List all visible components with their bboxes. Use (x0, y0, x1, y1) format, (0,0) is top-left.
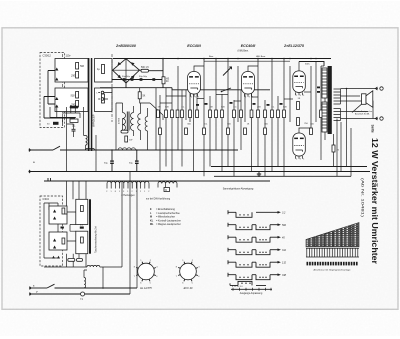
wire vibrator inner link (48, 71, 55, 105)
bridge diode tick SW (117, 75, 120, 79)
svg-text:12 W Verstärker mit Umrichter: 12 W Verstärker mit Umrichter (370, 138, 379, 264)
resistor vertical x258 (257, 110, 260, 118)
svg-text:= Magnet-Lautsprecher: = Magnet-Lautsprecher (156, 223, 181, 226)
svg-text:KL: KL (150, 219, 154, 222)
resistor EL12 bias upper (297, 102, 300, 110)
wire vertical x321 (320, 66, 322, 160)
tube EL12 lower U4 pins (296, 156, 303, 159)
contact diode arrow 2 (55, 78, 58, 81)
node speaker tap (346, 88, 348, 90)
bridge diode tick NW (118, 62, 122, 65)
tube EL12 upper U3 cathode (296, 86, 303, 88)
node junction rail x178 (177, 58, 179, 60)
svg-text:2: 2 (296, 158, 297, 160)
umrichter wedge inner posts (315, 226, 351, 248)
switch row 1 bracket A (236, 212, 252, 217)
resistor vertical x172 (171, 110, 174, 118)
wire secondary tap3 (341, 101, 374, 119)
socket EL12 pins (136, 262, 156, 282)
resistor vertical x251.5 (250, 110, 253, 118)
wire vertical x311 (310, 66, 312, 131)
wire speaker diagonal lead (352, 104, 362, 112)
resistor vertical x197 (196, 110, 199, 118)
svg-text:1: 1 (136, 191, 137, 193)
wire bottom bus (44, 266, 87, 268)
socket diagram EL12 circle (138, 263, 155, 280)
svg-text:4 Heizungen: 4 Heizungen (121, 194, 135, 197)
switch row 1 start terminal (228, 210, 236, 214)
wire vertical x337 (336, 119, 338, 177)
tube ECC40/II U2 cathode (244, 88, 251, 90)
wire mains line a bottom (31, 287, 47, 289)
svg-text:2: 2 (148, 191, 149, 193)
svg-text:M: M (150, 216, 152, 219)
resistor vertical x278 (277, 110, 280, 118)
svg-text:Ausgangs-Anpassung: Ausgangs-Anpassung (240, 292, 263, 295)
node rail150 b (136, 149, 138, 151)
switch row 1 contact dots A (239, 214, 240, 215)
suppression choke vertical (84, 278, 86, 288)
node junction rail x290 (289, 58, 291, 60)
node junction rail x228 (227, 58, 229, 60)
wire secondary tap2 (341, 95, 361, 97)
wire riser to top rail (162, 59, 164, 88)
node bottom junction (102, 287, 104, 289)
svg-text:Sammelgehäuse-Abzweigung: Sammelgehäuse-Abzweigung (223, 188, 254, 191)
wire vertical x234 (233, 100, 235, 176)
secondary comb upper (334, 89, 341, 104)
wire EL12a plate (298, 62, 300, 71)
power transformer core (88, 58, 90, 151)
switch row 5 arrow (270, 261, 278, 263)
wire vertical x325 (324, 92, 326, 140)
switch row 5 contact dots B (259, 264, 260, 265)
tube ECC40/I U1 anode bars (189, 76, 193, 78)
speaker magnet box (362, 94, 367, 105)
vibrator2 loop lower (49, 232, 67, 250)
bridge diode tick SE (131, 76, 135, 79)
terminal arrow lower (376, 117, 378, 120)
wire vertical x341 (340, 122, 342, 172)
svg-text:ML: ML (150, 223, 154, 226)
resistor vertical x166 (165, 110, 168, 118)
node junction rail x311 (310, 58, 312, 60)
secondary comb lower (334, 109, 341, 121)
svg-text:25K: 25K (257, 107, 261, 109)
svg-text:1: 1 (111, 191, 112, 193)
terminal bottom b (29, 293, 31, 296)
svg-text:5: 5 (252, 96, 253, 98)
wire secondary tap1 (341, 88, 379, 90)
wire vibrator left feed (44, 97, 75, 119)
wire vertical x160 (159, 95, 161, 172)
filter cap 50u B (136, 150, 138, 172)
svg-text:2×B300/100: 2×B300/100 (115, 44, 136, 48)
contact arrow b1 (53, 210, 56, 213)
tube ECC40/II U2 anode bars (243, 76, 247, 78)
wire choke output (149, 70, 164, 72)
terminal a mains (29, 149, 31, 152)
tube ECC40/II U2 envelope (242, 72, 255, 95)
wire vertical x210 (209, 96, 211, 167)
wire output riser (333, 134, 335, 167)
contact arrow b4 (53, 246, 56, 249)
resistor 500 upper a (76, 63, 79, 70)
switch row 4 arrow (270, 249, 278, 251)
switch row 6 contact dots A (239, 277, 240, 278)
wire interstage bottom leads (123, 119, 148, 151)
switch row 2 contact dots B (259, 227, 260, 228)
node junction rail x238 (237, 58, 239, 60)
svg-text:C30/12: C30/12 (43, 54, 52, 58)
wire EL12b plate (299, 128, 311, 133)
svg-text:132: 132 (282, 261, 287, 264)
umrichter teeth feet (306, 256, 359, 258)
switch row 6 start terminal (228, 273, 236, 277)
tube EL12 upper U3 pins (296, 92, 303, 95)
switch row 6 contact dots B (259, 277, 260, 278)
svg-text:2: 2 (245, 96, 246, 98)
wire terminal stubs (98, 93, 112, 100)
svg-text:5: 5 (198, 96, 199, 98)
node junction rail x316 (315, 58, 317, 60)
resistor HS 40 (162, 77, 165, 84)
wire plate supply segment (299, 62, 324, 67)
capacitor blob x318.5 (317, 91, 320, 93)
wire vertical x351 (350, 128, 352, 176)
wire dropper leads (140, 88, 150, 103)
svg-text:2: 2 (191, 96, 192, 98)
svg-text:5: 5 (303, 158, 304, 160)
switch row 3 bracket A (236, 237, 252, 242)
resistor lower x186 (185, 128, 188, 135)
module core dark (89, 199, 91, 253)
electrolytic cap 50u no4 (152, 78, 155, 81)
buffer arrows bottom (52, 256, 60, 259)
svg-text:Anschluß KL/ML: Anschluß KL/ML (355, 113, 371, 116)
driver choke winding (138, 114, 141, 131)
label D box (164, 188, 170, 192)
svg-text:2: 2 (140, 191, 141, 193)
svg-text:EL 12/375: EL 12/375 (140, 287, 152, 290)
terminal b mains (29, 170, 31, 173)
ground symbol (257, 172, 261, 177)
wire tube1 plate to rail (194, 66, 204, 72)
svg-text:1M: 1M (210, 107, 213, 109)
svg-text:WANDLER: WANDLER (93, 114, 96, 127)
capacitor blob x206 (205, 103, 208, 105)
secondary loop upper (95, 59, 113, 83)
wire coupling y101 (234, 100, 241, 102)
switch row 2 arrow (270, 224, 278, 226)
node junction rail x284 (283, 58, 285, 60)
speaker terminal upper (380, 87, 383, 90)
switch contact on mains rail (53, 146, 60, 150)
electrolytic cap 50u no2 (131, 78, 134, 81)
svg-text:2: 2 (106, 191, 107, 193)
resistor 5K dropper (138, 92, 141, 99)
svg-text:250: 250 (70, 75, 76, 78)
svg-text:nur bei DIN-Ausführung: nur bei DIN-Ausführung (146, 197, 171, 200)
wire vertical x216 (215, 59, 217, 151)
svg-text:5K: 5K (143, 96, 146, 98)
switch row 5 bracket B (252, 262, 270, 267)
svg-text:3: 3 (249, 96, 250, 98)
capacitor blob x231 (230, 102, 233, 104)
resistor EL12 bias lower (297, 118, 300, 126)
resistor vertical x325 (324, 110, 327, 118)
secondary cap 4u (102, 65, 105, 74)
ground circle mp (81, 292, 85, 296)
svg-text:2×EL12/375: 2×EL12/375 (283, 44, 305, 48)
resistor vertical x177.5 (176, 110, 179, 118)
svg-text:3: 3 (300, 95, 301, 97)
wire vertical x241 (240, 90, 242, 150)
wire vertical x346.5 (346, 89, 348, 167)
output choke winding (145, 117, 147, 131)
wire vertical x238 (237, 66, 239, 122)
contact diode arrow 1 (55, 68, 58, 71)
plug symbol lower rail (44, 178, 52, 181)
svg-text:HBL Bew.: HBL Bew. (256, 56, 266, 58)
resistor b upper (62, 208, 65, 214)
resistor lower x311 (310, 128, 313, 135)
wire riser x66.6 (66, 107, 68, 172)
wire vertical x197 (196, 90, 198, 115)
svg-text:500: 500 (282, 224, 287, 227)
wire mains line b bottom (31, 293, 130, 295)
resistor vertical x210 (209, 110, 212, 118)
bridge diode tick NE (131, 62, 134, 66)
contact arrow b3 (53, 239, 56, 242)
terminal bottom a (29, 287, 31, 290)
module resistor dn (81, 237, 84, 243)
output transformer core (328, 66, 332, 134)
resistor 25 output (332, 145, 335, 152)
svg-text:500: 500 (80, 65, 85, 68)
mains coil left (86, 149, 95, 151)
wire mains line a bottom 2 (55, 287, 138, 289)
relay box (70, 106, 78, 109)
wire vertical x265 (264, 100, 266, 176)
node junction rail x272 (271, 58, 273, 60)
switch row 4 start terminal (228, 248, 236, 252)
svg-text:D: D (165, 189, 167, 192)
resistor bottom h2 (77, 259, 83, 262)
winding D (158, 182, 177, 184)
wire rail 79.5 filter (100, 79, 163, 81)
terminal minus (101, 98, 104, 101)
capacitor blob x268 (267, 104, 270, 106)
wire vertical x222 (221, 94, 223, 172)
wire vertical x190 (189, 90, 191, 122)
resistor vertical x241 (240, 110, 243, 118)
wire module top leads (67, 181, 87, 206)
output transformer primary winding upper (322, 68, 327, 98)
resistor vertical x234 (233, 110, 236, 118)
wire choke vert leads (84, 270, 87, 288)
switch row 4 bracket A (236, 250, 252, 255)
wire rail 171.5 full (31, 171, 371, 173)
wire rail 176.3 (214, 175, 351, 177)
resistor vertical x190 (189, 110, 192, 118)
resistor smoothing 500/1.5 (141, 69, 149, 72)
resistor bottom h1 (68, 259, 75, 262)
capacitor blob x254 (253, 103, 256, 105)
resistor vertical x158 (157, 110, 160, 118)
svg-text:Taschensenderung für 2st: Taschensenderung für 2st (95, 226, 98, 253)
buffer arrow pair left (69, 105, 77, 108)
contact arrow b2 (53, 217, 56, 220)
resistor lower x228 (227, 128, 230, 135)
wire vertical x290 (289, 66, 291, 122)
wire vibrator bottom run (57, 108, 80, 127)
svg-text:= Lautsprecherbuchse: = Lautsprecherbuchse (156, 212, 180, 215)
svg-text:500 1,5: 500 1,5 (141, 67, 149, 69)
switch row 7 dots (241, 283, 242, 284)
resistor vertical x216 (215, 110, 218, 118)
wire interstage top leads (123, 103, 148, 117)
switch row 3 contact dots A (239, 239, 240, 240)
wire choke link (100, 267, 103, 288)
switch contact mid (222, 88, 232, 92)
cap vibrator bottom (70, 119, 78, 122)
tube ECC40/I U1 envelope (188, 72, 201, 95)
wire vertical x182 (181, 90, 183, 167)
wire rail 150 mains top (31, 149, 54, 151)
speaker terminal lower (380, 117, 383, 120)
trimmer potentiometer (223, 67, 232, 76)
wire vertical x245 (244, 90, 246, 122)
vibrator reed dash-dot line (62, 54, 64, 122)
svg-text:(Ab Nr. 10481): (Ab Nr. 10481) (360, 178, 364, 218)
wire vertical x204 (203, 59, 205, 177)
primary loop upper (55, 59, 88, 83)
resistor vertical x265 (264, 110, 267, 118)
switch row 4 bracket B (252, 250, 270, 255)
wire vertical x178 (177, 66, 179, 150)
svg-text:1: 1 (127, 191, 128, 193)
switch row 6 bracket A (236, 275, 252, 280)
capacitor blob x318.5 (317, 87, 320, 89)
interstage transformer winding right (131, 113, 134, 131)
wire coupling y98.5 (197, 98, 204, 100)
svg-text:50K: 50K (165, 107, 169, 109)
node rail150 a (111, 149, 113, 151)
wire rail 89.8 cathode bus right (172, 88, 270, 90)
transformer2 module box upper (76, 199, 88, 224)
svg-text:500: 500 (71, 95, 76, 98)
switch row 5 start terminal (228, 260, 236, 264)
tube EL12 upper U3 grid (294, 82, 304, 84)
tube EL12 upper U3 envelope (293, 71, 306, 93)
svg-text:5: 5 (303, 95, 304, 97)
wire bridge bottom (125, 83, 127, 88)
electrolytic cap 50u no1 (123, 78, 126, 81)
wire coupling y96 (166, 95, 186, 97)
svg-text:8: 8 (115, 191, 116, 193)
resistor vertical x182 (181, 110, 184, 118)
tube ECC40/II U2 pins (245, 94, 252, 97)
svg-text:312: 312 (282, 249, 287, 252)
wire vertical x284 (283, 59, 285, 177)
tube ECC40/II U2 grid (243, 83, 253, 85)
wire bridge east (140, 69, 142, 71)
switch row 6 bracket B (252, 275, 270, 280)
tube EL12 upper U3 anode bars (294, 76, 298, 78)
svg-text:= Einschaltleitung: = Einschaltleitung (156, 208, 175, 211)
switch row 3 start terminal (228, 235, 236, 239)
wire secondary tap5 (341, 118, 379, 120)
resistor lower x204 (203, 128, 206, 135)
tube EL12 lower U4 envelope (293, 133, 306, 156)
wire vertical x272 (271, 59, 273, 172)
cap b mid (61, 227, 64, 229)
switch row 6 arrow (270, 274, 278, 276)
resistor vertical x284 (283, 110, 286, 118)
switch row 4 contact dots A (239, 252, 240, 253)
terminal arrow upper (376, 87, 378, 90)
primary winding hatch (322, 70, 327, 128)
switch row 3 arrow (270, 236, 278, 238)
module cap mid (80, 227, 84, 229)
wire secondary tap4 (341, 111, 369, 113)
wire bridge top to rail (125, 58, 127, 60)
node junction rail x258 (257, 58, 259, 60)
interstage transformer core (127, 112, 129, 131)
svg-text:50K: 50K (221, 107, 225, 109)
wire coupling y97 (252, 96, 259, 98)
heater winding taps (107, 181, 149, 183)
wire vertical x156 (155, 88, 157, 150)
wire coupling y103 (160, 102, 172, 104)
svg-text:3: 3 (300, 158, 301, 160)
tube EL12 lower U4 grid (294, 145, 304, 147)
winding D ticks (158, 184, 177, 188)
svg-text:ECC40/I: ECC40/I (187, 44, 202, 48)
resistor lower x245 (244, 128, 247, 135)
module resistor up (81, 206, 84, 212)
wire cap lead (67, 124, 74, 137)
wire vertical x193.5 (193, 90, 195, 172)
svg-text:1: 1 (119, 191, 120, 193)
switch row 1 arrow (256, 211, 278, 213)
electrolytic cap 50u no3 (140, 78, 143, 81)
node junction rail x204 (203, 58, 205, 60)
svg-text:110v: 110v (66, 55, 72, 58)
wire vertical x278 (277, 96, 279, 167)
switch row 3 contact dots B (259, 239, 260, 240)
switch row 4 contact dots B (259, 252, 260, 253)
svg-text:Seite: Seite (370, 125, 374, 133)
filter choke vertical left (86, 136, 88, 146)
umrichter comb teeth (306, 248, 359, 257)
wire module down leads (67, 254, 87, 267)
svg-text:2: 2 (296, 95, 297, 97)
tube EL12 lower U4 anode bars (294, 138, 298, 140)
resistor b lower (62, 238, 65, 244)
capacitor blob x197.5 (196, 104, 199, 106)
wire EL12 join plate top (321, 65, 324, 67)
wire vertical x251.5 (251, 90, 253, 172)
resistor vertical x222 (221, 110, 224, 118)
vibrator2 loop upper (49, 206, 67, 224)
svg-text:HS: HS (166, 79, 170, 81)
svg-text:C30/4: C30/4 (43, 198, 50, 201)
node junction rail x216 (215, 58, 217, 60)
svg-text:2: 2 (132, 191, 133, 193)
wire vertical x166 (165, 88, 167, 167)
